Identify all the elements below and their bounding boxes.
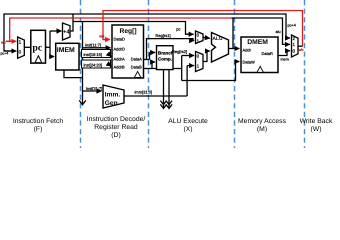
wire DataB out — [144, 68, 182, 70]
wire pc riser to +4 and IMEM — [49, 31, 51, 57]
svg-text:DataR: DataR — [262, 51, 273, 56]
svg-text:0: 0 — [19, 49, 22, 54]
svg-text:Gen: Gen — [105, 100, 118, 107]
wire B-mux to ALU — [203, 51, 207, 62]
wire mux to pc — [24, 46, 31, 48]
svg-text:wb: wb — [99, 33, 105, 38]
svg-text:mem: mem — [281, 58, 289, 62]
svg-text:inst[31:7]: inst[31:7] — [86, 86, 102, 91]
mux B (ALU operand B) — [196, 52, 204, 72]
wire +4 output riser — [70, 14, 73, 31]
svg-text:Register Read: Register Read — [94, 124, 138, 131]
svg-text:(F): (F) — [34, 126, 43, 133]
svg-text:inst[24:20]: inst[24:20] — [84, 63, 102, 68]
svg-text:AddrB: AddrB — [114, 64, 125, 69]
svg-text:alu: alu — [276, 30, 281, 34]
svg-text:(D): (D) — [111, 132, 120, 139]
mux A (ALU operand A) — [196, 31, 204, 44]
svg-text:imm[31:0]: imm[31:0] — [135, 89, 153, 94]
svg-text:Memory Access: Memory Access — [238, 118, 287, 125]
svg-text:Instruction Fetch: Instruction Fetch — [13, 118, 63, 125]
arrow inst[19:15] to AddrA — [110, 56, 111, 57]
svg-text:ALU Execute: ALU Execute — [168, 118, 208, 125]
wire store-data path — [182, 62, 236, 81]
svg-text:1: 1 — [19, 39, 22, 44]
svg-text:Instruction Decode/: Instruction Decode/ — [87, 116, 146, 123]
svg-text:pc+4: pc+4 — [1, 52, 9, 56]
pipeline reg box inst[24:20] — [82, 60, 111, 68]
wire rs2 riser into B-mux input0 — [181, 56, 183, 81]
wire alu-result riser — [232, 18, 234, 49]
svg-text:Addr: Addr — [243, 47, 252, 52]
svg-text:AddrD: AddrD — [114, 47, 125, 52]
wire wb red writeback — [103, 11, 303, 47]
memory IMEM — [56, 43, 79, 70]
svg-text:DataB: DataB — [131, 64, 142, 69]
wire WB mux output — [298, 45, 303, 47]
wire ALU output to DMEM Addr — [229, 48, 240, 50]
wire alu-result horizontal to WB mux — [232, 18, 290, 44]
svg-text:(W): (W) — [311, 126, 322, 133]
mux WB writeback select — [292, 35, 299, 57]
pipeline reg box inst[19:15] — [82, 50, 111, 58]
svg-text:DataA: DataA — [131, 57, 142, 62]
svg-text:DataW: DataW — [243, 59, 255, 64]
svg-text:pc: pc — [32, 42, 42, 53]
svg-text:IMEM: IMEM — [57, 47, 75, 54]
arrow rs1 into A-mux input1 — [190, 40, 195, 42]
immediate generator Imm.Gen — [103, 85, 124, 108]
arrow wb into DataD (red) — [103, 39, 110, 41]
wire DataA out — [144, 59, 150, 61]
stage divider M/W — [304, 0, 306, 148]
stage divider X/M — [234, 0, 236, 148]
svg-text:alu: alu — [1, 41, 6, 45]
svg-text:(M): (M) — [257, 126, 267, 133]
svg-text:inst[19:15]: inst[19:15] — [84, 52, 102, 57]
wire A-mux to ALU — [203, 37, 210, 38]
svg-text:pc+4: pc+4 — [288, 23, 296, 27]
memory DMEM — [241, 37, 278, 73]
wire IMEM instruction output — [64, 70, 83, 78]
wire DMEM DataR to WB mux — [278, 51, 287, 56]
wire red branch redirect — [10, 18, 232, 41]
svg-text:AddrA: AddrA — [114, 57, 125, 62]
svg-text:DMEM: DMEM — [247, 39, 268, 46]
comparator Branch Comp — [157, 46, 174, 70]
svg-text:Reg[rs2]: Reg[rs2] — [172, 49, 187, 54]
adder +4 — [63, 23, 71, 40]
wire inst[31:7] to ImmGen — [83, 90, 102, 92]
wire imm riser into B-mux input1 — [186, 66, 188, 96]
alu U1 — [212, 33, 229, 63]
wire imm[31:0] output — [124, 95, 187, 97]
wire inst[11:7] to AddrD — [83, 47, 111, 49]
arrow inst[24:20] to AddrB — [110, 64, 111, 67]
arrow into DMEM DataW — [236, 61, 240, 63]
wire branch flag arrows — [160, 70, 172, 109]
wire dangling control arrow (inst) — [79, 91, 86, 105]
arrow into IF mux input0 — [4, 50, 16, 52]
wire rs1 riser — [147, 39, 194, 60]
arrow alu into WB mux input1 — [286, 43, 290, 45]
svg-text:Reg[rs1]: Reg[rs1] — [156, 33, 171, 38]
svg-text:Imm.: Imm. — [105, 92, 121, 99]
svg-text:Reg[]: Reg[] — [120, 28, 137, 35]
svg-text:Write Back: Write Back — [300, 118, 333, 125]
wire pc output — [46, 46, 51, 48]
wire pc+4 top loop — [4, 14, 286, 51]
wire pc into A-mux — [188, 33, 194, 35]
stage divider F/D — [80, 0, 82, 148]
svg-text:inst[11:7]: inst[11:7] — [85, 43, 101, 48]
wire pc value line — [73, 22, 190, 35]
stage divider D/X — [148, 0, 150, 148]
svg-text:(X): (X) — [183, 126, 192, 133]
svg-text:pc: pc — [176, 27, 180, 32]
arrow into IF mux input1 (red) — [6, 40, 16, 42]
arrow pc+4 into WB mux input2 — [286, 37, 290, 39]
arrow into IMEM Addr — [50, 56, 54, 58]
svg-text:ALU: ALU — [212, 36, 223, 42]
svg-text:wb: wb — [299, 48, 304, 52]
svg-text:+4: +4 — [63, 29, 70, 35]
wire inst vertical bus — [82, 22, 84, 92]
svg-text:Comp.: Comp. — [158, 57, 172, 62]
mux IF pc-select — [18, 37, 25, 58]
register pc — [31, 30, 46, 63]
svg-text:DataD: DataD — [114, 36, 125, 41]
arrow into +4 — [50, 30, 62, 32]
arrow DataB into BranchComp B — [151, 62, 153, 69]
register file Reg[] — [112, 25, 144, 78]
arrow DataA into BranchComp A — [149, 53, 151, 60]
